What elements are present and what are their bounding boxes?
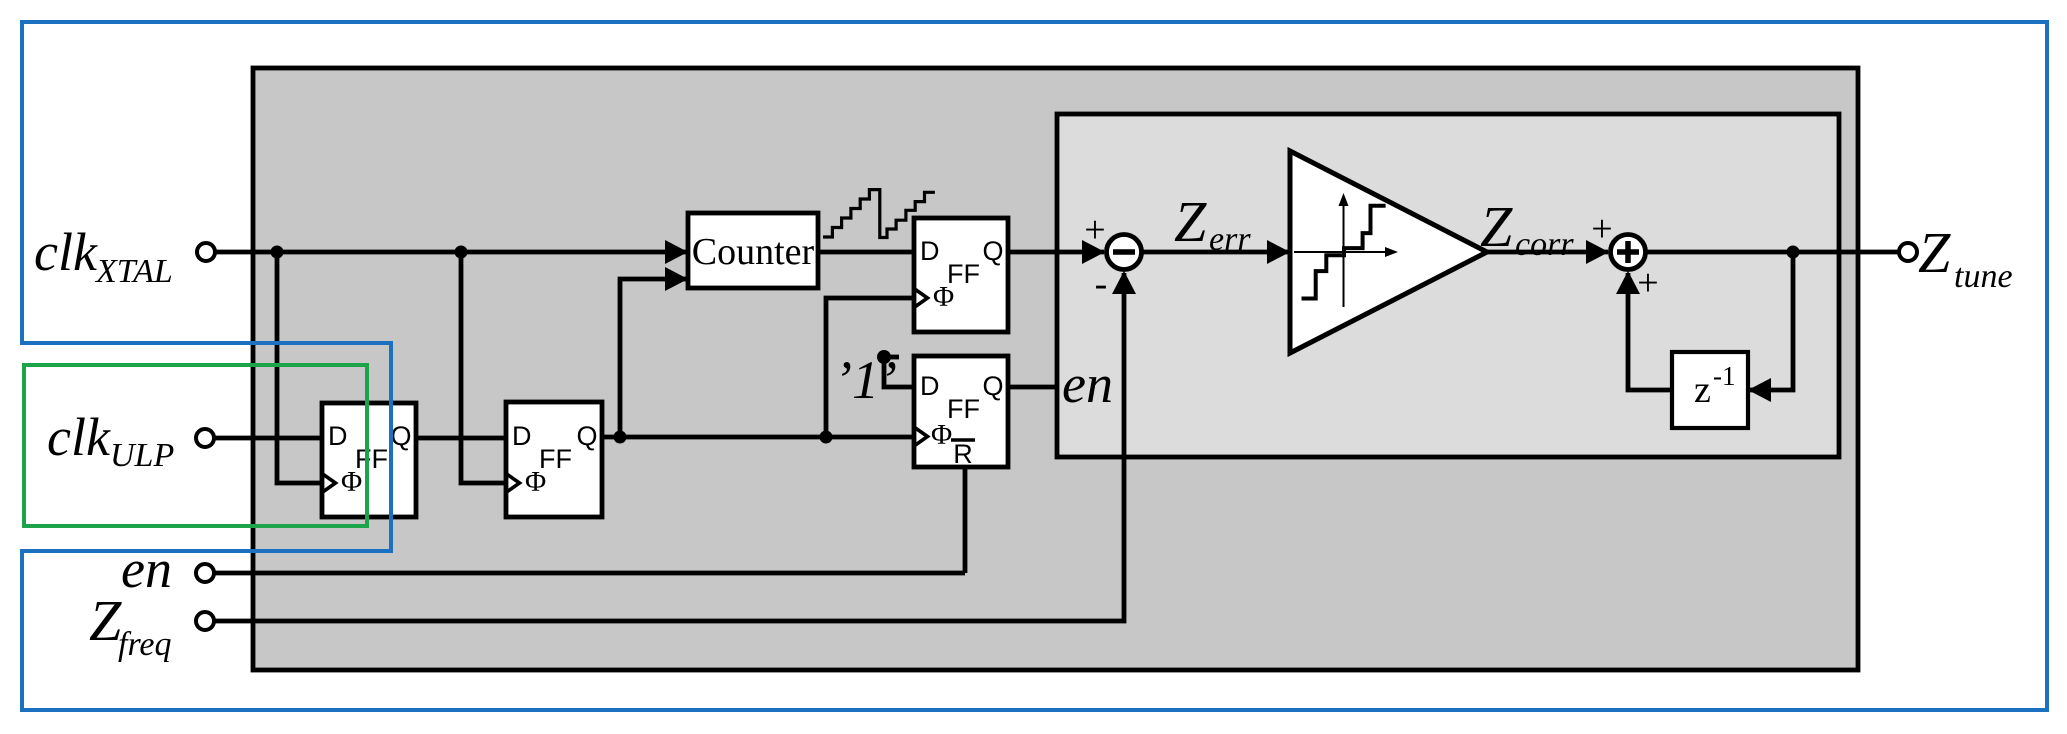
svg-text:XTAL: XTAL — [94, 253, 173, 290]
wire clk_XTAL main line — [215, 250, 688, 255]
flip-flop FFb — [506, 402, 602, 517]
terminal clk_XTAL — [197, 243, 215, 261]
svg-text:Q: Q — [576, 421, 597, 451]
flip-flop FF2 — [914, 356, 1008, 469]
wire clk_ULP to FFa D — [214, 436, 322, 441]
wire up to FF1 clock — [826, 298, 914, 437]
svg-text:Counter: Counter — [692, 231, 815, 273]
svg-text:clk: clk — [34, 222, 98, 282]
wire clk_XTAL down to FFa clock — [277, 252, 322, 483]
svg-text:Z: Z — [1174, 189, 1207, 254]
wire z-1 to adder bottom input — [1628, 273, 1672, 390]
node junction to FF1 clock — [820, 431, 833, 444]
svg-text:Φ: Φ — [525, 466, 546, 498]
quantizer staircase curve — [1302, 206, 1386, 299]
wire feedback down and left into z-1 — [1750, 252, 1793, 390]
svg-text:’1’: ’1’ — [834, 350, 897, 410]
counter block — [688, 213, 818, 288]
terminal Z_tune — [1899, 243, 1917, 261]
svg-text:Z: Z — [1918, 220, 1951, 285]
svg-text:Φ: Φ — [931, 419, 952, 451]
svg-text:corr: corr — [1515, 226, 1574, 263]
wire FF1 Q to subtractor — [1008, 250, 1104, 255]
arrow into subtractor — [1082, 240, 1105, 264]
arrow into z-1 block — [1748, 378, 1771, 402]
constant '1' tie to FF2 D — [834, 350, 914, 410]
quantizer triangle block — [1290, 151, 1487, 353]
svg-text:+: + — [1591, 208, 1612, 250]
node junction FFb Q to counter second input — [614, 431, 627, 444]
adder node — [1611, 235, 1646, 270]
arrow up into adder — [1616, 271, 1640, 294]
wire up to Counter second input — [620, 279, 688, 437]
wire en input line — [214, 571, 965, 576]
svg-text:clk: clk — [47, 407, 111, 467]
main dark gray block — [253, 68, 1858, 670]
wire quantizer to adder — [1487, 250, 1608, 255]
svg-text:R: R — [953, 439, 973, 469]
wire adder to Z_tune output — [1646, 250, 1899, 255]
svg-text:Φ: Φ — [933, 281, 954, 313]
svg-text:Z: Z — [1480, 194, 1513, 259]
terminal clk_ULP — [196, 429, 214, 447]
wire FF2 Q to loop filter en input — [1008, 385, 1057, 390]
svg-text:D: D — [512, 421, 532, 451]
svg-text:Q: Q — [982, 236, 1003, 266]
wire FFb Q to FF2 clock (long horizontal) — [603, 435, 914, 440]
terminal Z_freq — [196, 612, 214, 630]
flip-flop FFa — [322, 403, 416, 517]
node junction feedback takeoff — [1787, 246, 1800, 259]
sawtooth waveform icon — [823, 190, 935, 238]
green box around clk_ULP — [24, 365, 367, 526]
wire FF2 reset down to en line — [963, 467, 968, 573]
arrow up into subtractor minus input — [1112, 271, 1136, 294]
quantizer axes — [1294, 193, 1398, 307]
svg-text:en: en — [1062, 354, 1113, 414]
node junction clk_XTAL to FFa clock — [271, 246, 284, 259]
svg-text:D: D — [920, 371, 940, 401]
svg-text:Φ: Φ — [341, 466, 362, 498]
arrow into quantizer — [1267, 240, 1290, 264]
wire Counter to FF1 D — [818, 250, 914, 255]
svg-text:D: D — [328, 421, 348, 451]
svg-text:+: + — [1637, 262, 1658, 304]
delay block z-1 — [1672, 352, 1748, 428]
wire subtractor to quantizer — [1142, 250, 1288, 255]
flip-flop FF1 — [914, 218, 1008, 332]
svg-text:+: + — [1084, 209, 1105, 251]
arrow into Counter top input — [665, 240, 688, 264]
node junction clk_XTAL to FFb clock — [455, 246, 468, 259]
svg-text:-: - — [1095, 263, 1108, 305]
svg-text:Q: Q — [982, 371, 1003, 401]
svg-text:D: D — [920, 236, 940, 266]
svg-text:ULP: ULP — [110, 437, 174, 474]
subtractor node — [1107, 235, 1142, 270]
wire Z_freq input line — [214, 273, 1124, 621]
wire clk_XTAL down to FFb clock — [461, 252, 506, 483]
svg-text:-1: -1 — [1713, 361, 1736, 391]
terminal en — [196, 564, 214, 582]
svg-text:freq: freq — [118, 626, 172, 663]
arrow into adder — [1586, 240, 1609, 264]
svg-text:z: z — [1694, 369, 1711, 411]
svg-text:tune: tune — [1954, 258, 2013, 295]
arrow into Counter bottom input — [665, 267, 688, 291]
svg-text:en: en — [121, 539, 172, 599]
wire FFa Q to FFb D — [416, 436, 506, 441]
inner light gray loop-filter block — [1057, 114, 1839, 457]
svg-text:Q: Q — [390, 421, 411, 451]
